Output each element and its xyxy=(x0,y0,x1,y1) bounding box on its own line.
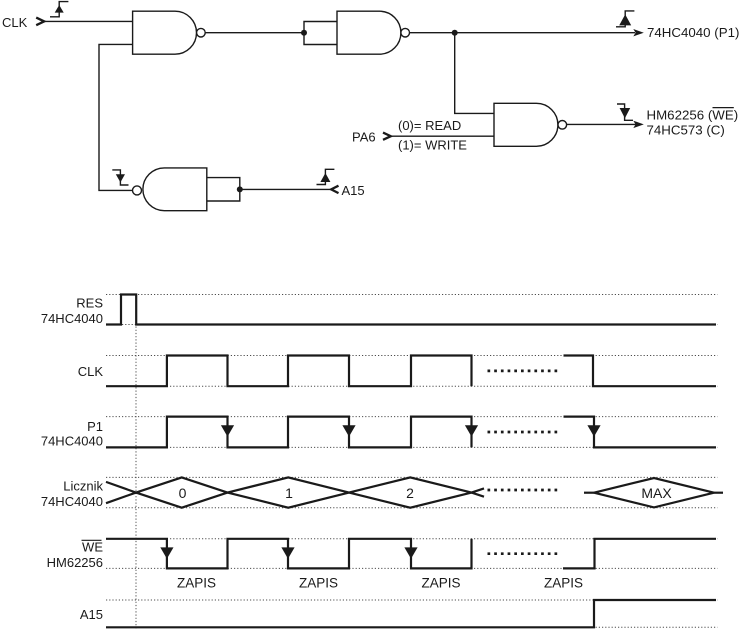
edge arrow WE fall 1 xyxy=(160,547,173,558)
svg-text:74HC4040: 74HC4040 xyxy=(41,433,103,448)
svg-text:(1)= WRITE: (1)= WRITE xyxy=(398,138,467,153)
svg-text:74HC4040: 74HC4040 xyxy=(41,311,103,326)
input arrow PA6 xyxy=(383,133,391,140)
svg-text:ZAPIS: ZAPIS xyxy=(544,576,583,591)
vertical dotted reference line xyxy=(135,295,137,631)
counter bus waveform line A xyxy=(106,477,484,507)
svg-text:P1: P1 xyxy=(87,419,103,434)
nand gate U1 xyxy=(133,11,206,54)
wire U2 input tie xyxy=(304,22,337,45)
svg-text:74HC4040 (P1): 74HC4040 (P1) xyxy=(647,25,739,40)
wire U3 output xyxy=(567,123,636,125)
junction node P1 branch xyxy=(452,30,458,36)
edge arrow P1 fall 2 xyxy=(342,425,355,436)
svg-text:CLK: CLK xyxy=(2,15,28,30)
nand gate U4 (mirrored inverter) xyxy=(133,168,207,211)
wire U4 input tie xyxy=(207,178,240,201)
output arrow to 74HC4040 xyxy=(633,29,644,36)
svg-text:WE: WE xyxy=(82,539,103,554)
signal A15 waveform xyxy=(106,600,716,627)
wire U1 lower input (from U4 output) xyxy=(99,44,133,190)
wire PA6 to U3 xyxy=(391,135,494,137)
svg-text:A15: A15 xyxy=(342,183,365,198)
output arrow to HM62256 xyxy=(633,121,644,128)
svg-text:HM62256: HM62256 xyxy=(47,555,103,570)
nand gate U2 xyxy=(337,11,410,54)
signal WE label xyxy=(47,539,104,570)
signal P1 row dotted guides xyxy=(106,416,718,418)
rising-edge symbol on A15 xyxy=(317,169,335,184)
signal WE waveform xyxy=(106,539,472,569)
svg-text:A15: A15 xyxy=(80,607,103,622)
svg-text:0: 0 xyxy=(179,485,187,501)
svg-text:PA6: PA6 xyxy=(352,129,376,144)
svg-text:(0)= READ: (0)= READ xyxy=(398,118,461,133)
signal P1 ellipsis xyxy=(488,431,558,434)
nand gate U3 xyxy=(494,103,567,146)
svg-text:ZAPIS: ZAPIS xyxy=(299,576,338,591)
rising-edge symbol on CLK input xyxy=(50,2,68,17)
falling-edge symbol at U4 input xyxy=(112,170,128,185)
svg-text:2: 2 xyxy=(406,485,414,501)
signal RES waveform xyxy=(106,295,716,325)
junction A15 tie xyxy=(237,186,243,192)
svg-text:ZAPIS: ZAPIS xyxy=(177,576,216,591)
counter MAX bus lobe xyxy=(584,478,723,507)
wire U2 output to 74HC4040 xyxy=(410,32,636,34)
edge arrow P1 fall 4 xyxy=(587,425,600,436)
signal CLK row dotted guides xyxy=(106,355,718,357)
svg-text:RES: RES xyxy=(76,296,103,311)
wire CLK to gate U1 xyxy=(45,20,133,22)
svg-text:74HC573 (C): 74HC573 (C) xyxy=(647,123,725,138)
counter ellipsis xyxy=(488,489,558,492)
falling-edge symbol at WE output xyxy=(617,104,633,120)
svg-text:ZAPIS: ZAPIS xyxy=(421,576,460,591)
junction U2 input xyxy=(301,30,307,36)
counter bus waveform line B xyxy=(106,477,484,507)
svg-text:Licznik: Licznik xyxy=(63,478,103,493)
signal A15 row dotted guides xyxy=(106,599,718,601)
label HM62256 (WE) xyxy=(647,108,739,123)
svg-text:CLK: CLK xyxy=(78,364,104,379)
signal WE row dotted guides xyxy=(106,538,718,540)
edge arrow P1 fall 1 xyxy=(221,425,234,436)
wire A15 xyxy=(240,188,331,190)
input arrow A15 xyxy=(331,186,338,193)
edge arrow P1 fall 3 xyxy=(465,425,478,436)
input arrow CLK xyxy=(36,18,44,26)
signal P1 waveform xyxy=(106,417,472,448)
signal CLK waveform xyxy=(106,356,472,387)
rising-edge symbol at P1 output xyxy=(616,11,634,27)
svg-text:HM62256 (WE): HM62256 (WE) xyxy=(647,108,739,123)
edge arrow WE fall 3 xyxy=(404,547,417,558)
signal RES row dotted guides xyxy=(106,294,718,296)
signal CLK ellipsis xyxy=(488,370,558,373)
signal WE ellipsis xyxy=(488,552,558,555)
wire branch down to U3 input xyxy=(455,33,494,114)
counter Licznik row dotted guides xyxy=(106,476,718,478)
svg-text:74HC4040: 74HC4040 xyxy=(41,494,103,509)
svg-text:MAX: MAX xyxy=(641,485,672,501)
edge arrow WE fall 2 xyxy=(281,547,294,558)
wire U1 output to U2 xyxy=(205,32,304,34)
svg-text:1: 1 xyxy=(285,485,293,501)
